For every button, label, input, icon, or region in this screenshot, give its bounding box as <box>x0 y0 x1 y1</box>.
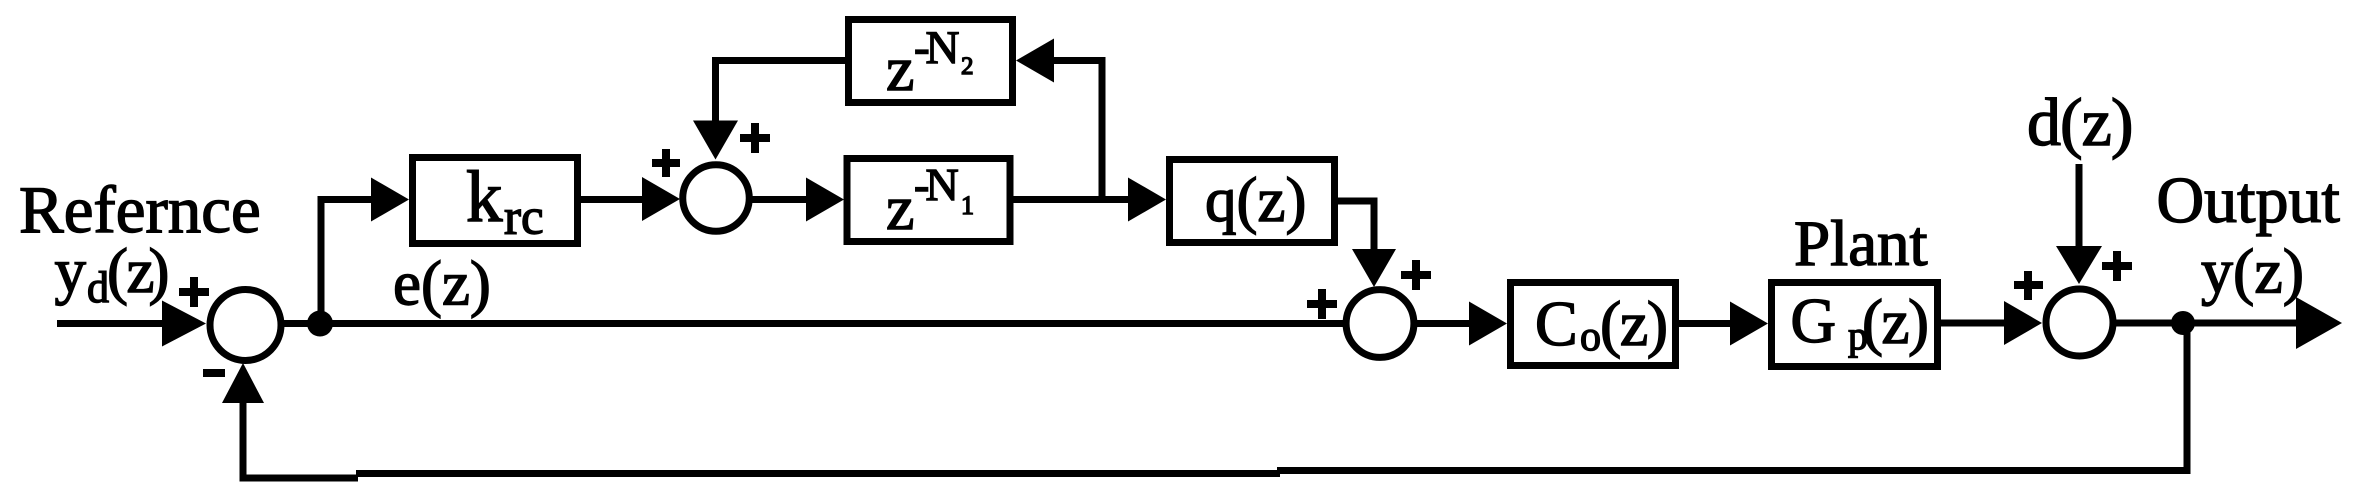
svg-text:2: 2 <box>961 53 974 80</box>
wire branch to krc <box>321 200 372 324</box>
arrow into krc <box>371 178 409 222</box>
wire feedback <box>1277 323 2187 471</box>
svg-text:G: G <box>1791 286 1837 356</box>
summing junction S3 <box>1346 290 1414 358</box>
arrow into summer S1 <box>162 301 206 347</box>
arrow into S2 <box>642 177 680 221</box>
plus sign at S1 input <box>179 277 209 307</box>
plus sign at S4 top input <box>2102 251 2132 281</box>
block krc <box>413 156 578 246</box>
wire d(z) down <box>2076 164 2083 246</box>
arrow into S4 <box>2004 301 2042 345</box>
arrow from zN2 into S2 top <box>693 121 738 160</box>
wire zN2 to S2 <box>716 61 846 123</box>
svg-text:y: y <box>55 236 87 306</box>
plus sign at S3 left input <box>1307 289 1337 319</box>
wire e(z) main line <box>278 320 1348 327</box>
arrow feedback into S1 bottom <box>222 363 264 403</box>
plus sign at S4 left input <box>2014 271 2043 300</box>
svg-text:y(z): y(z) <box>2201 236 2304 307</box>
svg-text:(z): (z) <box>1600 288 1667 359</box>
block zN2 <box>849 20 1013 105</box>
arrow d into S4 top <box>2056 246 2102 284</box>
svg-text:z: z <box>886 33 914 104</box>
node branch dot <box>307 311 333 337</box>
wire feedback bottom left segment <box>243 400 358 478</box>
svg-text:(: ( <box>107 236 128 306</box>
minus sign at S1 feedback input <box>203 369 225 377</box>
arrow into zN2 right side <box>1016 39 1054 83</box>
svg-text:Plant: Plant <box>1794 208 1928 280</box>
svg-text:k: k <box>466 156 503 237</box>
svg-text:C: C <box>1535 288 1578 359</box>
svg-text:N: N <box>926 22 960 74</box>
wire Co to Gp <box>1675 320 1731 327</box>
wire Gp to S4 <box>1937 320 2005 327</box>
wire zN1 to q <box>1010 196 1129 203</box>
block Co <box>1511 283 1676 366</box>
node output dot <box>2171 311 2195 335</box>
svg-text:q(z): q(z) <box>1205 165 1306 235</box>
svg-text:d(z): d(z) <box>2027 84 2132 160</box>
svg-text:rc: rc <box>504 190 544 246</box>
summing junction S4 <box>2046 289 2113 356</box>
svg-text:): ) <box>149 236 170 306</box>
wire S4 to output <box>2112 320 2306 327</box>
wire feedback bottom mid segment <box>356 470 1280 477</box>
plus sign at S2 left input <box>652 149 680 177</box>
block zN1 <box>847 159 1010 244</box>
block q <box>1170 160 1335 243</box>
svg-text:o: o <box>1580 314 1601 360</box>
arrow into zN1 <box>806 178 844 222</box>
arrow output end <box>2296 297 2342 349</box>
svg-text:d: d <box>87 263 109 312</box>
summing junction S1 <box>210 290 281 361</box>
svg-text:Output: Output <box>2157 164 2340 237</box>
svg-text:N: N <box>926 159 959 210</box>
wire riser to zN2 <box>1053 61 1102 200</box>
svg-text:(z): (z) <box>1862 287 1927 357</box>
plus sign at S3 top input <box>1401 260 1431 290</box>
wire S3 to Co <box>1413 320 1470 327</box>
label yd(z) <box>55 236 170 312</box>
arrow into q <box>1128 178 1166 222</box>
summing junction S2 <box>683 165 750 232</box>
arrow into S3 top <box>1352 249 1396 287</box>
arrow into Gp <box>1730 302 1768 346</box>
svg-text:e(z): e(z) <box>393 249 491 319</box>
svg-text:1: 1 <box>961 191 974 220</box>
svg-text:z: z <box>886 172 914 243</box>
wire input <box>57 320 172 327</box>
wire krc to S2 <box>578 196 642 203</box>
block Gp <box>1772 283 1938 367</box>
wire q to S3 <box>1334 201 1374 250</box>
plus sign at S2 top input <box>740 123 770 153</box>
wire S2 to zN1 <box>748 196 807 203</box>
arrow into Co <box>1469 302 1507 346</box>
